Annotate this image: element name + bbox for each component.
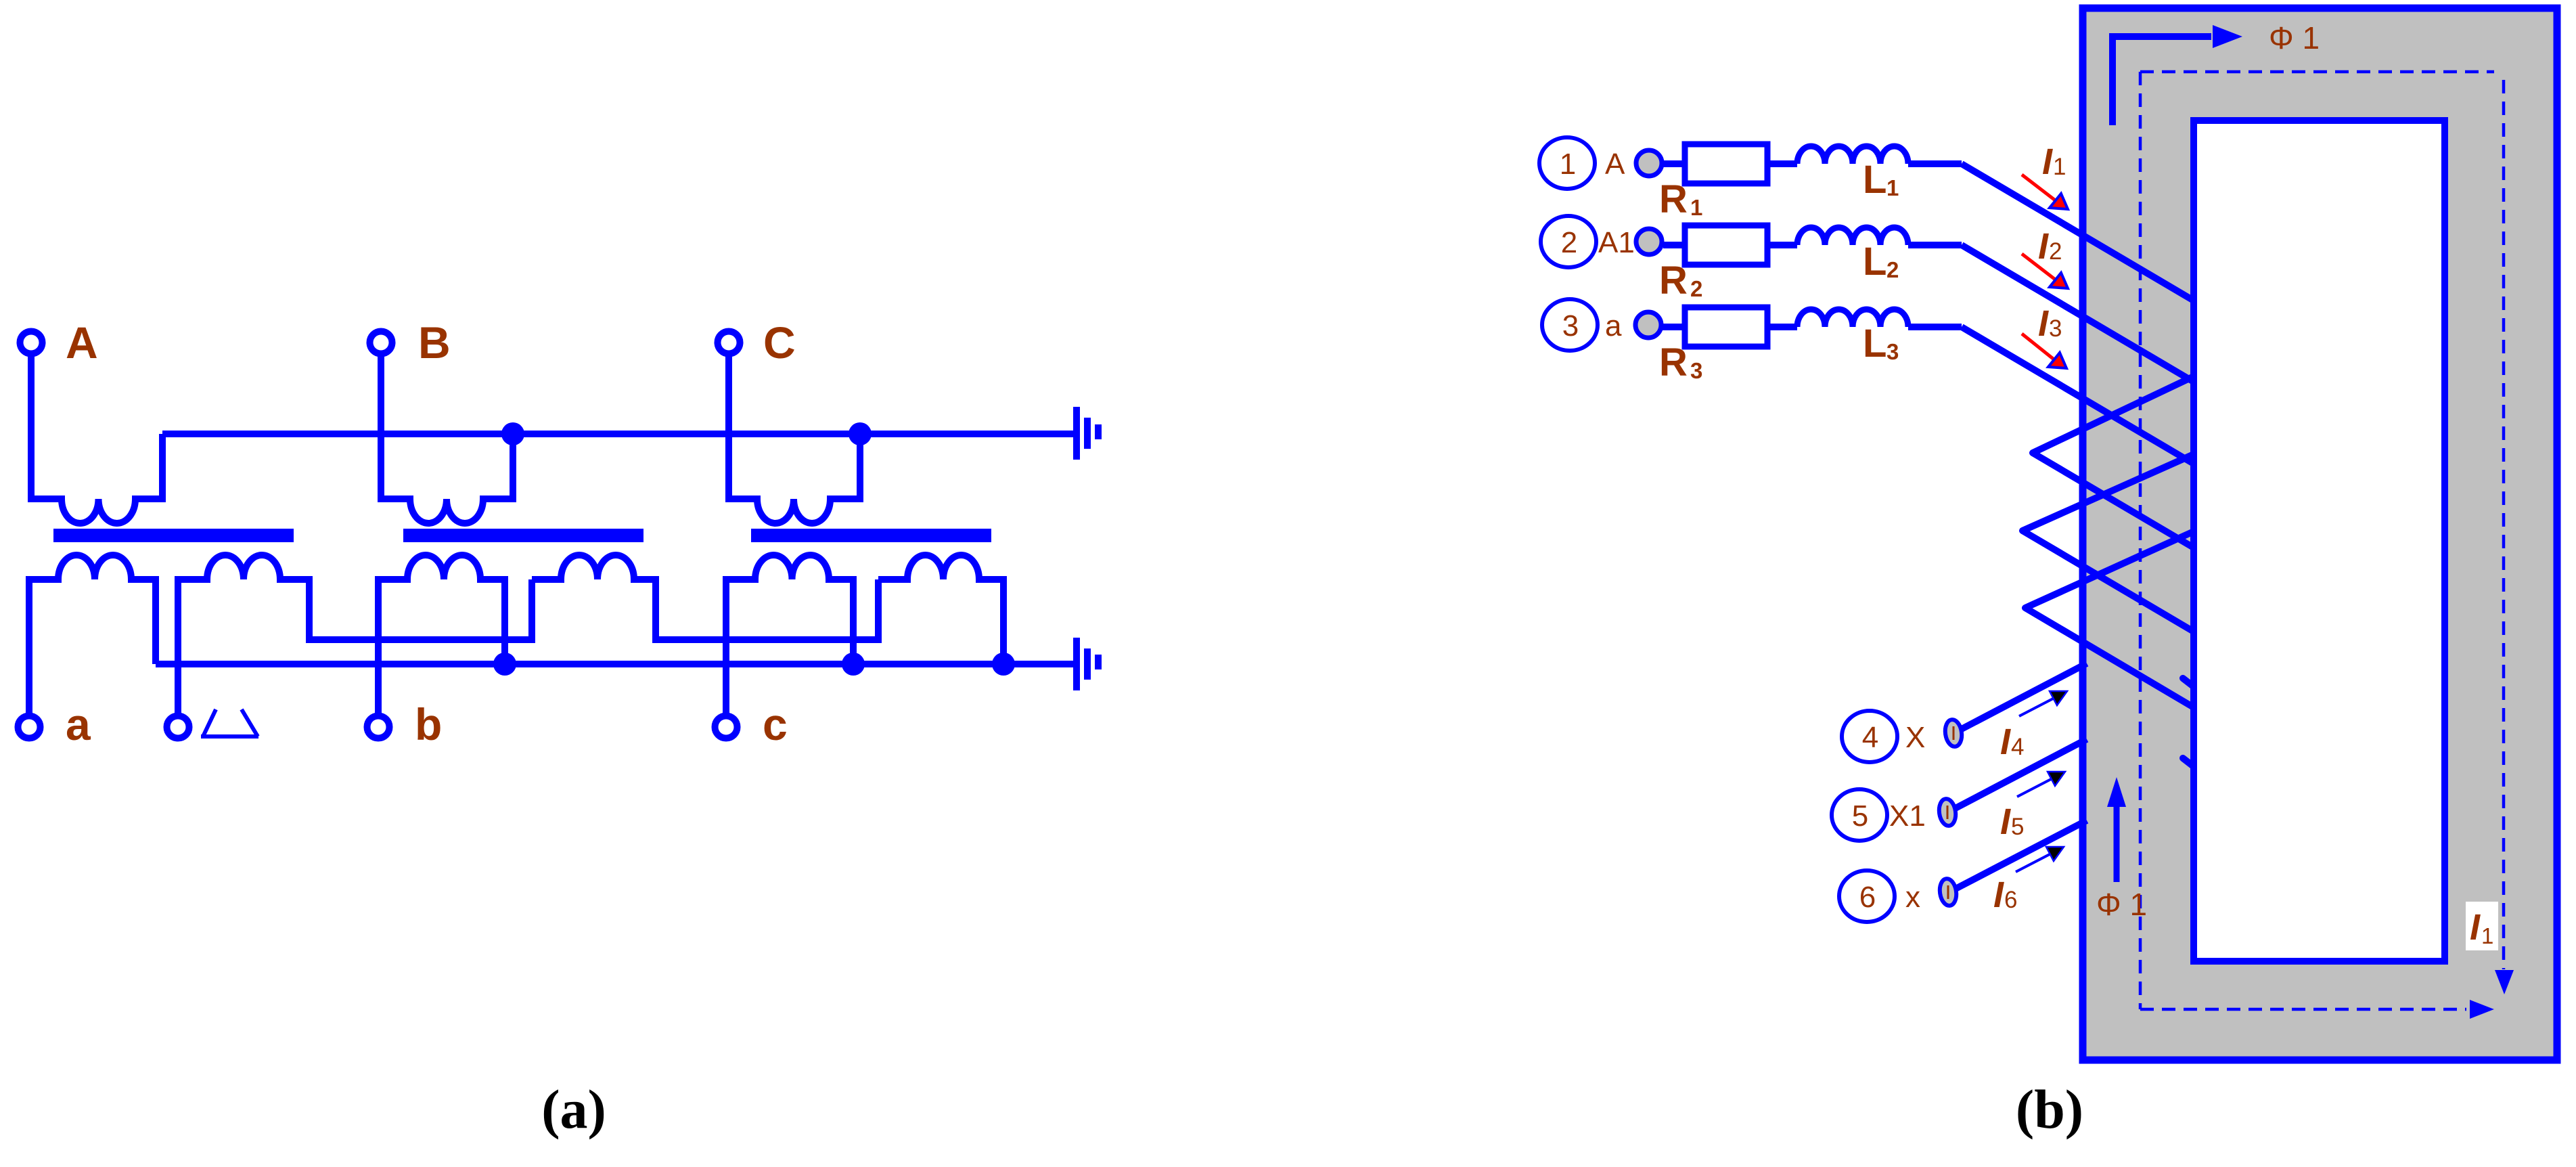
- svg-text:3: 3: [1886, 339, 1899, 364]
- svg-text:Φ 1: Φ 1: [2269, 20, 2320, 56]
- flux path dashed loop left side: [2139, 72, 2142, 1009]
- current arrow I2: [2022, 254, 2057, 281]
- wire pin2 to R2: [1663, 242, 1686, 248]
- flux path dashed loop right side: [2502, 80, 2506, 969]
- delta symbol: [201, 709, 258, 736]
- svg-text:4: 4: [2011, 734, 2024, 760]
- wire L3 to core: [1908, 324, 1962, 330]
- svg-text:2: 2: [1886, 257, 1899, 282]
- secondary winding lead from terminal X: [1960, 663, 2087, 730]
- terminal 6 connector pin: [1938, 878, 1958, 907]
- svg-text:4: 4: [1862, 721, 1878, 754]
- svg-text:a: a: [66, 699, 91, 749]
- svg-text:L: L: [1863, 322, 1886, 366]
- svg-text:6: 6: [2004, 887, 2017, 913]
- svg-text:I: I: [2000, 801, 2011, 842]
- delta terminal circle: [167, 716, 189, 739]
- terminal 2 connector pin: [1636, 229, 1662, 255]
- flux path dashed loop bottom side: [2140, 1008, 2466, 1011]
- current label I1 on right limb with white backing: [2466, 902, 2498, 950]
- primary winding turn 2 diagonal from L2: [1962, 245, 2197, 384]
- svg-text:I: I: [1993, 875, 2004, 915]
- primary winding return turn 2: [2023, 455, 2192, 531]
- svg-text:5: 5: [2011, 814, 2024, 840]
- svg-text:2: 2: [1561, 226, 1577, 259]
- svg-text:A: A: [1605, 148, 1625, 181]
- svg-text:Φ 1: Φ 1: [2096, 887, 2147, 922]
- wire pin3 to R3: [1663, 324, 1686, 330]
- primary winding return turn 3: [2025, 532, 2192, 608]
- svg-text:I: I: [2038, 226, 2049, 267]
- svg-text:X: X: [1905, 721, 1925, 754]
- svg-text:x: x: [1905, 881, 1920, 914]
- svg-text:1: 1: [1560, 148, 1576, 181]
- inductor L2: [1797, 227, 1908, 245]
- flux arrow bottom left leg pointing up: [2107, 777, 2126, 882]
- resistor R2: [1685, 225, 1767, 265]
- primary winding phase B with lead from terminal B: [381, 354, 513, 523]
- svg-text:X1: X1: [1889, 799, 1926, 833]
- current arrow I6: [2016, 852, 2054, 872]
- terminal 5 connector pin: [1937, 798, 1957, 827]
- svg-text:L: L: [1863, 158, 1886, 202]
- svg-text:A: A: [66, 317, 98, 368]
- svg-text:1: 1: [2481, 923, 2493, 948]
- wire pin1 to R1: [1663, 160, 1686, 167]
- terminal 1 numbered circle: [1539, 137, 1595, 189]
- secondary winding lead from terminal x: [1956, 820, 2087, 889]
- primary winding turn 1 diagonal from L1: [1962, 164, 2197, 303]
- terminal 4 connector pin: [1943, 719, 1963, 748]
- junction node on top bus at phase B: [501, 422, 524, 445]
- terminal 3 numbered circle: [1542, 299, 1598, 351]
- terminal 5 numbered circle: [1832, 789, 1887, 841]
- terminal b circle: [367, 716, 390, 739]
- svg-text:(a): (a): [541, 1078, 606, 1140]
- secondary delta winding phase B with series link wire: [532, 555, 878, 640]
- secondary winding return stub 1: [2183, 678, 2195, 688]
- current arrow I1: [2022, 175, 2057, 202]
- svg-text:R: R: [1659, 340, 1688, 384]
- transformer core (gray ring outer boundary): [2083, 8, 2557, 1060]
- secondary wye winding phase B with lead to terminal b and lead to bottom bus: [378, 555, 505, 715]
- secondary winding lead from terminal X1: [1953, 739, 2087, 810]
- inductor L3: [1797, 309, 1908, 327]
- svg-text:a: a: [1605, 309, 1622, 343]
- svg-text:I: I: [2038, 303, 2049, 344]
- terminal c circle: [715, 716, 738, 739]
- primary winding forward turn 5: [2023, 531, 2197, 634]
- primary winding phase C with lead from terminal C: [729, 354, 860, 523]
- terminal A circle: [20, 332, 43, 354]
- svg-text:I: I: [2042, 141, 2053, 182]
- svg-text:1: 1: [1690, 195, 1702, 220]
- terminal C circle: [718, 332, 740, 354]
- primary winding forward turn 4: [2033, 453, 2197, 550]
- top ground symbol: [1073, 407, 1102, 460]
- primary winding phase A with lead from terminal A: [31, 354, 162, 523]
- svg-text:2: 2: [1690, 276, 1702, 301]
- core bar phase A: [53, 529, 294, 542]
- wire R3 to L3: [1767, 324, 1797, 330]
- secondary delta winding phase A with lead to delta terminal and series link wire: [178, 555, 532, 715]
- secondary wye winding phase A with lead to terminal a and lead to bottom bus: [29, 555, 156, 715]
- core bar phase B: [403, 529, 643, 542]
- junction node on bottom bus at delta end: [992, 653, 1015, 676]
- primary winding return turn 1: [2033, 377, 2192, 453]
- svg-text:A1: A1: [1598, 226, 1635, 259]
- terminal 1 connector pin: [1636, 150, 1662, 176]
- terminal 2 numbered circle: [1541, 216, 1596, 267]
- terminal 4 numbered circle: [1842, 711, 1897, 762]
- svg-text:R: R: [1659, 177, 1688, 221]
- svg-text:1: 1: [1886, 175, 1899, 200]
- svg-text:R: R: [1659, 259, 1688, 303]
- bottom neutral bus wire: [156, 661, 1073, 667]
- bottom ground symbol: [1073, 638, 1102, 690]
- current arrow I4: [2019, 697, 2057, 716]
- svg-text:I: I: [2000, 722, 2011, 762]
- junction node on bottom bus at phase C: [842, 653, 865, 676]
- inductor L1: [1797, 146, 1908, 164]
- flux arrow top left solid: [2112, 25, 2242, 125]
- svg-text:6: 6: [1859, 881, 1876, 914]
- svg-text:(b): (b): [2016, 1078, 2083, 1140]
- wire L2 to core: [1908, 242, 1962, 248]
- resistor R1: [1685, 144, 1767, 183]
- svg-text:3: 3: [1562, 309, 1579, 343]
- svg-text:3: 3: [1690, 358, 1702, 383]
- terminal a circle: [18, 716, 41, 739]
- flux path arrowhead right side pointing down: [2495, 970, 2514, 994]
- top neutral bus wire: [162, 431, 1073, 437]
- core bar phase C: [751, 529, 991, 542]
- flux path arrowhead bottom right corner pointing right: [2470, 1000, 2494, 1019]
- secondary delta winding phase C with lead to bottom bus: [878, 555, 1003, 664]
- junction node on top bus at phase C: [849, 422, 872, 445]
- svg-text:b: b: [415, 699, 442, 749]
- svg-text:I: I: [2470, 907, 2481, 948]
- wire R2 to L2: [1767, 242, 1797, 248]
- terminal 3 connector pin: [1635, 312, 1661, 338]
- terminal B circle: [370, 332, 392, 354]
- wire R1 to L1: [1767, 160, 1797, 167]
- resistor R3: [1685, 307, 1767, 347]
- terminal 6 numbered circle: [1839, 871, 1895, 922]
- svg-text:2: 2: [2049, 238, 2062, 265]
- junction node on bottom bus at phase B: [493, 653, 516, 676]
- secondary wye winding phase C with lead to terminal c and lead to bottom bus: [726, 555, 853, 715]
- wire L1 to core: [1908, 160, 1962, 167]
- secondary winding return stub 2: [2183, 758, 2195, 768]
- svg-text:L: L: [1863, 240, 1886, 284]
- primary winding forward turn 6: [2025, 608, 2197, 709]
- current arrow I3: [2022, 334, 2056, 361]
- svg-text:5: 5: [1852, 799, 1868, 833]
- svg-text:1: 1: [2053, 154, 2066, 180]
- svg-text:B: B: [418, 317, 451, 368]
- svg-text:c: c: [763, 699, 788, 749]
- core window (white opening): [2194, 120, 2445, 961]
- flux path dashed loop top side: [2140, 70, 2494, 74]
- svg-text:C: C: [763, 317, 796, 368]
- primary winding turn 3 diagonal from L3: [1962, 327, 2197, 466]
- svg-text:3: 3: [2049, 315, 2062, 342]
- current arrow I5: [2017, 777, 2055, 797]
